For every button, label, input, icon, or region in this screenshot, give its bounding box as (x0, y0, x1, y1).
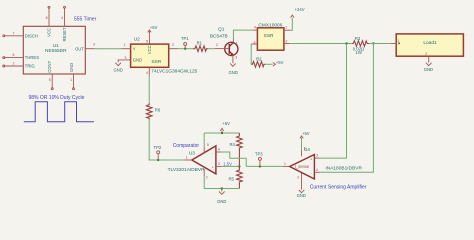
resistor R4 (230, 133, 243, 166)
test point TP2 (154, 145, 162, 161)
svg-text:DISCH: DISCH (25, 33, 38, 38)
power +5V at U4 (300, 131, 310, 151)
U2 pin 4 (bottom) (146, 67, 149, 75)
svg-text:5: 5 (49, 78, 51, 82)
ground at U3 rail (217, 189, 226, 204)
junction at ground rail (221, 187, 223, 189)
svg-text:1: 1 (186, 155, 188, 159)
svg-text:R2: R2 (256, 57, 262, 62)
svg-text:1: 1 (284, 162, 286, 166)
load Load1 box (396, 34, 463, 56)
U1 pin TRIG (2) (3, 62, 35, 69)
svg-text:4: 4 (61, 16, 63, 20)
svg-text:3: 3 (93, 43, 95, 47)
svg-text:7: 7 (13, 31, 15, 35)
svg-text:2: 2 (172, 43, 174, 47)
U1 pin THRES (6) (3, 53, 39, 60)
U3 output pin 1 (184, 155, 192, 160)
U5 pin 2 (284, 39, 290, 43)
resistor R6 (146, 103, 160, 119)
wire R2 to +5V (265, 63, 272, 65)
svg-text:+5V: +5V (222, 121, 230, 126)
svg-text:4: 4 (146, 71, 148, 75)
svg-text:R5: R5 (229, 177, 235, 182)
resistor R5 (229, 166, 243, 188)
timer IC U1 NE555DR box (23, 26, 85, 74)
U4 output pin 1 (283, 162, 290, 167)
svg-text:Q1: Q1 (218, 26, 225, 32)
svg-text:1: 1 (236, 42, 238, 46)
svg-text:GND: GND (69, 63, 74, 72)
test point TP1 (181, 36, 189, 50)
svg-text:5: 5 (304, 147, 306, 151)
junction at +5V rail (221, 132, 223, 134)
svg-text:BC547B: BC547B (210, 34, 228, 40)
Q1 collector pin (232, 39, 234, 43)
U5 pin 4 (253, 26, 258, 31)
wire U5 pin3 down to R2 (250, 44, 252, 64)
op-amp U3 TLV3201 triangle (168, 146, 216, 174)
wire U3 inverting input jog to I_sense (222, 152, 247, 166)
svg-text:2: 2 (297, 176, 299, 180)
op-amp U4 INA180 triangle (290, 147, 363, 179)
wire U5 pin1 to +24V (291, 18, 293, 30)
svg-text:3: 3 (253, 41, 255, 45)
U2 pin 1 (Y input side) (121, 43, 136, 51)
junction R4 R5 divider node (238, 165, 240, 167)
U3 input pin 4 (inverting) (216, 148, 222, 152)
svg-text:4: 4 (316, 168, 318, 172)
svg-text:CMX10006: CMX10006 (258, 22, 282, 28)
svg-text:4: 4 (218, 148, 220, 152)
svg-text:R4: R4 (230, 142, 236, 147)
svg-text:3: 3 (124, 56, 126, 60)
wire Q1 collector to SSR pin 4 (233, 30, 252, 38)
transistor Q1 BC547B (210, 26, 238, 59)
junction node R3 left (345, 42, 347, 44)
Q1 emitter pin (232, 55, 234, 63)
ground at U2 pin 3 (114, 63, 123, 73)
svg-text:1: 1 (124, 43, 126, 47)
svg-text:+5V: +5V (150, 25, 158, 30)
svg-text:SSR: SSR (151, 59, 161, 65)
svg-text:8: 8 (46, 16, 48, 20)
svg-text:1W: 1W (356, 50, 362, 55)
U1 pin RESET (4) (61, 6, 67, 41)
svg-text:+: + (310, 157, 312, 161)
U1 pin DISCH (7) (3, 31, 38, 38)
wire R6 to comparator output (149, 120, 184, 161)
svg-text:1: 1 (70, 78, 72, 82)
svg-text:-: - (212, 151, 213, 155)
svg-text:RESET: RESET (62, 27, 67, 41)
svg-text:5: 5 (207, 143, 209, 147)
svg-text:R1: R1 (197, 41, 203, 46)
power +24V (291, 7, 305, 18)
svg-text:6: 6 (13, 53, 15, 57)
svg-text:INA180B1IDBVR: INA180B1IDBVR (325, 166, 362, 172)
svg-text:VCC: VCC (47, 28, 52, 37)
svg-text:TRIG: TRIG (25, 64, 35, 69)
resistor R2 (251, 57, 265, 68)
svg-text:2: 2 (13, 62, 15, 66)
solid-state relay CMX10006 box (257, 22, 284, 50)
svg-text:2: 2 (285, 39, 287, 43)
wire U4 +input to R3 left (320, 44, 347, 159)
svg-text:2: 2 (425, 52, 427, 56)
svg-text:U1: U1 (53, 43, 59, 49)
U5 pin 1 (284, 25, 291, 30)
U3 V- pin 2 (204, 169, 208, 180)
svg-text:3: 3 (218, 162, 220, 166)
U3 V+ pin 5 (204, 143, 209, 153)
svg-text:2: 2 (206, 175, 208, 179)
Load1 pin 2 (425, 52, 428, 62)
svg-text:+5V: +5V (276, 60, 284, 65)
svg-text:R6: R6 (155, 107, 161, 112)
svg-text:GND: GND (229, 70, 238, 75)
svg-text:1: 1 (397, 39, 399, 43)
resistor R1 (193, 41, 208, 52)
U3 input pin 3 (non-inverting) (216, 162, 222, 166)
ground rail wire under U3 (204, 176, 239, 189)
svg-text:5: 5 (146, 40, 148, 44)
svg-text:+24V: +24V (295, 7, 305, 12)
wire U2 pin4 down to R6 (148, 76, 150, 104)
power +5V at U3 (220, 121, 230, 133)
svg-text:GND: GND (133, 58, 142, 63)
resistor R3 (352, 36, 369, 55)
svg-text:Comparator: Comparator (173, 143, 200, 149)
svg-text:-: - (311, 172, 312, 176)
svg-text:GND: GND (424, 67, 433, 72)
svg-text:TP1: TP1 (181, 36, 189, 41)
wire U2 pin2 to R1 (178, 48, 193, 50)
wire R1 to Q1 base (208, 48, 215, 50)
svg-text:555 Timer: 555 Timer (74, 16, 97, 22)
svg-text:Current Sensing Amplifier: Current Sensing Amplifier (310, 185, 367, 191)
U2 pin 2 (right) (169, 43, 179, 49)
svg-text:SSR: SSR (264, 33, 274, 39)
power +5V right of R2 (273, 60, 284, 66)
ground at Load1 (424, 63, 433, 72)
svg-text:TLV3201AIDBVR: TLV3201AIDBVR (168, 167, 206, 173)
svg-text:1.5V: 1.5V (223, 162, 232, 167)
U4 V+ pin (302, 147, 306, 157)
+5V rail wire above U3 (204, 133, 239, 147)
svg-text:+5V: +5V (302, 131, 310, 136)
buffer U2 74LVC1G384 box (131, 36, 198, 74)
U4 input pin - (314, 168, 319, 173)
svg-text:74LVC1G384GW,125: 74LVC1G384GW,125 (151, 68, 197, 74)
wire R3 to Load1 (369, 43, 391, 45)
svg-text:98% OR 10% Duty Cycle: 98% OR 10% Duty Cycle (29, 95, 85, 101)
ground at Q1 emitter (229, 63, 238, 75)
svg-text:OUT: OUT (75, 46, 84, 51)
wire U5 pin2 to R3 (290, 43, 352, 45)
U1 pin GND (1) (69, 63, 75, 90)
svg-text:Y: Y (133, 46, 136, 51)
svg-text:U2: U2 (134, 36, 140, 42)
svg-text:4: 4 (254, 26, 256, 30)
svg-text:I_sense: I_sense (295, 164, 310, 169)
svg-text:GND: GND (297, 193, 306, 198)
svg-text:CONT: CONT (47, 60, 52, 72)
svg-text:TP3: TP3 (255, 152, 263, 157)
test point TP3 (255, 152, 263, 168)
U5 pin 3 (251, 41, 257, 45)
svg-text:+: + (212, 166, 214, 170)
svg-text:THRES: THRES (25, 55, 39, 60)
power +5V at U2 (148, 25, 158, 33)
svg-text:R3: R3 (355, 36, 361, 41)
svg-text:2: 2 (216, 43, 218, 47)
svg-text:TP2: TP2 (154, 145, 162, 150)
svg-text:GND: GND (114, 68, 123, 73)
svg-text:Load1: Load1 (423, 40, 437, 46)
wire U1 OUT to U2 Y (95, 48, 121, 50)
ground at U4 (297, 190, 306, 198)
svg-text:VCC: VCC (147, 45, 152, 54)
U4 V- pin 2 (297, 173, 301, 190)
svg-text:GND: GND (217, 199, 226, 204)
svg-text:3: 3 (235, 56, 237, 60)
wire 1.5V node to INA output (222, 165, 283, 167)
U2 pin 5 VCC (146, 30, 152, 54)
U4 input pin + (314, 154, 319, 159)
square wave drawing (24, 102, 94, 122)
U2 pin 3 GND (118, 56, 142, 62)
svg-text:1: 1 (285, 25, 287, 29)
junction node R3 right (372, 42, 374, 44)
U1 pin CONT (5) (47, 60, 53, 89)
U1 pin OUT (3) (75, 43, 95, 52)
svg-text:NE555DR: NE555DR (45, 48, 67, 54)
svg-text:U3: U3 (189, 151, 195, 157)
wire U4 -input to R3 right (320, 44, 374, 173)
Load1 pin 1 (391, 39, 400, 44)
U1 pin VCC (8) (46, 6, 52, 37)
svg-text:3: 3 (316, 154, 318, 158)
